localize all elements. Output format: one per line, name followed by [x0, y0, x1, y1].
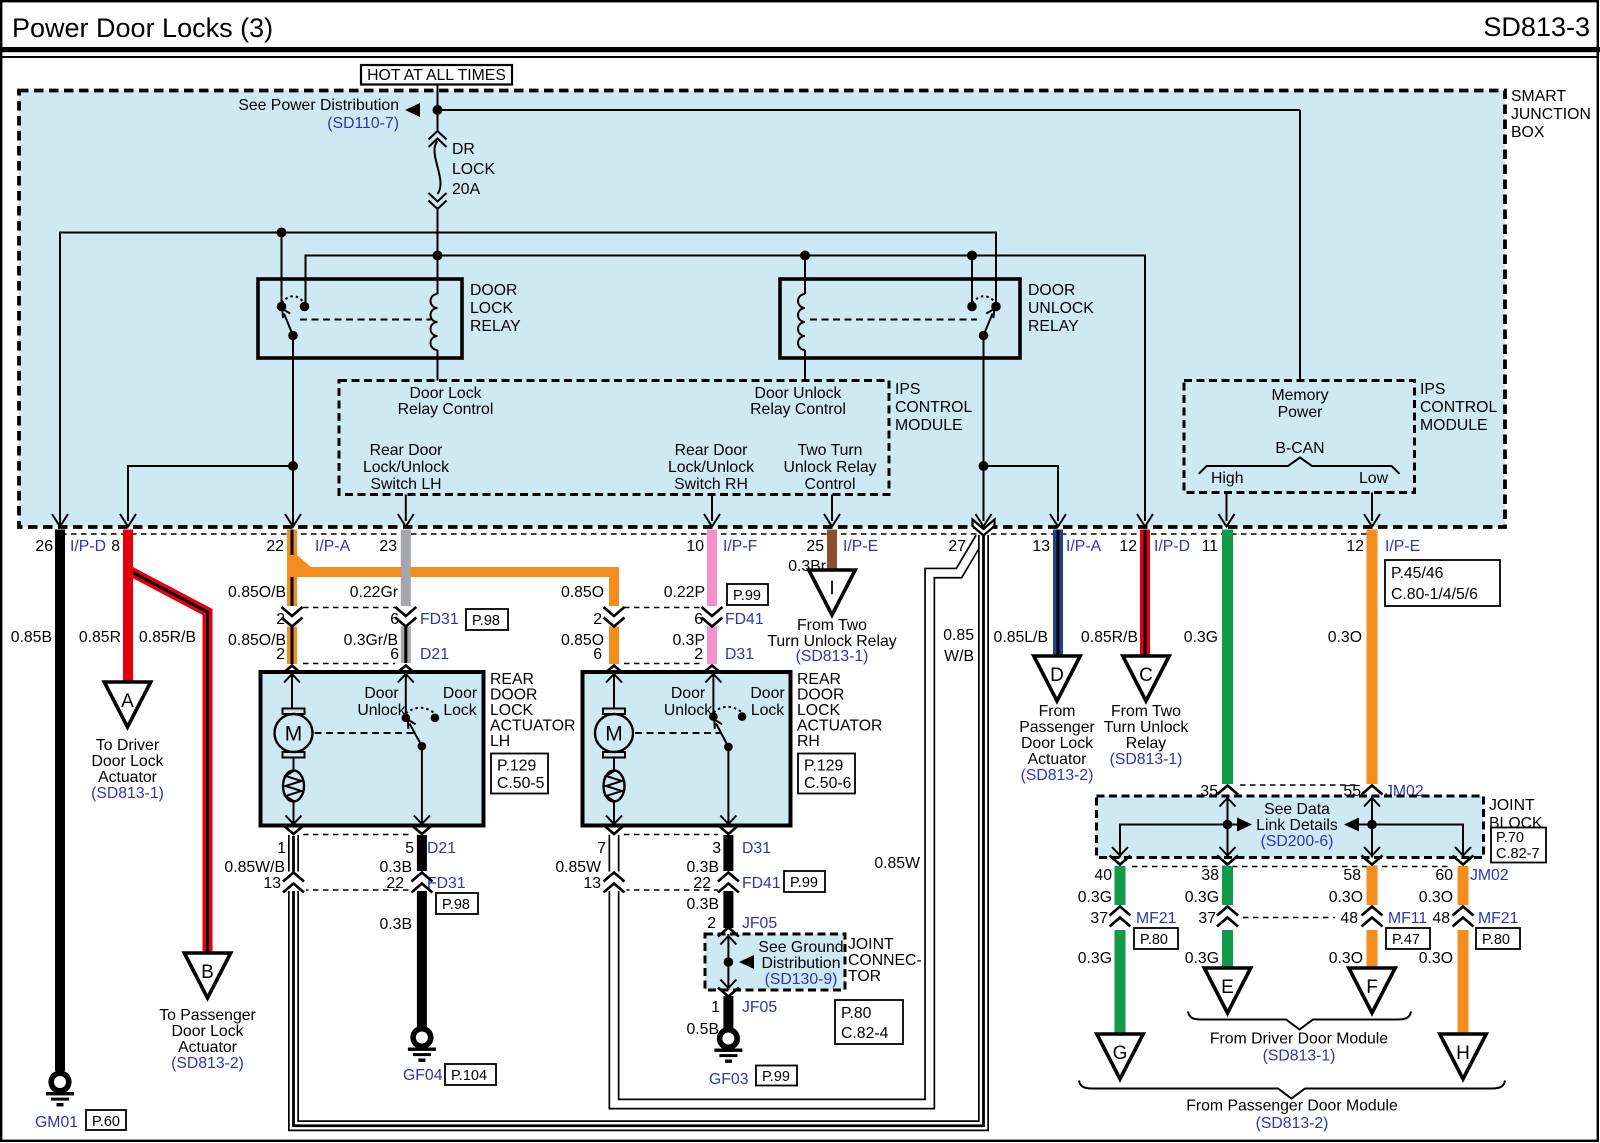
joint block internal wiring — [1120, 796, 1463, 858]
svg-text:0.85O/B: 0.85O/B — [228, 584, 286, 601]
wire 0.85L/B pin13 to triangle D — [1053, 530, 1063, 657]
ground GM01 — [46, 1073, 74, 1106]
svg-text:To Driver: To Driver — [96, 737, 159, 754]
wire from HOT box down to fuse — [437, 85, 439, 132]
svg-text:0.85W: 0.85W — [555, 859, 601, 876]
svg-text:12: 12 — [1346, 538, 1364, 555]
LH switch contacts — [402, 714, 411, 723]
svg-text:2: 2 — [593, 611, 602, 628]
svg-text:P.99: P.99 — [733, 588, 761, 604]
svg-text:Door: Door — [364, 685, 398, 702]
svg-text:20A: 20A — [452, 181, 481, 198]
relay2 dashed link — [810, 319, 977, 321]
svg-text:Unlock Relay: Unlock Relay — [783, 459, 876, 476]
svg-text:DOOR: DOOR — [1028, 282, 1075, 299]
svg-text:BOX: BOX — [1511, 124, 1545, 141]
svg-text:D: D — [1050, 665, 1064, 686]
LH motor — [283, 709, 305, 715]
svg-text:5: 5 — [405, 840, 414, 857]
relay2 contact right dot — [991, 302, 1001, 312]
svg-text:TOR: TOR — [848, 968, 881, 985]
svg-text:Low: Low — [1359, 470, 1389, 487]
relay2 coil — [798, 256, 805, 381]
actuator LH box — [261, 672, 484, 826]
triangle C — [1123, 656, 1169, 701]
svg-text:Lock: Lock — [751, 702, 784, 719]
svg-text:I/P-E: I/P-E — [1385, 538, 1420, 555]
node pin13 branch — [979, 461, 989, 471]
svg-text:MF21: MF21 — [1136, 910, 1177, 927]
svg-text:From Passenger Door Module: From Passenger Door Module — [1186, 1098, 1398, 1115]
relay1 dotted arc — [282, 296, 305, 303]
wire 0.85W RH motor to 27 jog (inner loop) — [614, 537, 981, 1105]
green wire 38 to triangle E — [1222, 866, 1233, 968]
svg-text:1: 1 — [711, 999, 720, 1016]
svg-text:10: 10 — [686, 538, 704, 555]
pin exit arrows — [52, 514, 68, 527]
svg-text:Door Unlock: Door Unlock — [755, 385, 842, 402]
svg-text:13: 13 — [263, 875, 281, 892]
svg-text:1: 1 — [277, 840, 286, 857]
thin dashed rows below boxes — [303, 835, 718, 891]
svg-text:Link Details: Link Details — [1256, 817, 1338, 834]
relay2 contact left dot — [967, 302, 977, 312]
svg-text:0.3B: 0.3B — [687, 896, 720, 913]
svg-text:2: 2 — [707, 915, 716, 932]
triangle E — [1204, 968, 1250, 1013]
svg-text:22: 22 — [386, 875, 404, 892]
wire fuse to bus2 — [437, 207, 439, 256]
svg-text:Door Lock: Door Lock — [410, 385, 482, 402]
svg-text:6: 6 — [593, 646, 602, 663]
svg-text:0.3O: 0.3O — [1328, 629, 1362, 646]
svg-text:DOOR: DOOR — [470, 282, 517, 299]
LH entry arrows — [284, 674, 300, 683]
svg-text:Control: Control — [805, 476, 856, 493]
svg-text:C.82-7: C.82-7 — [1496, 846, 1540, 862]
svg-text:Memory: Memory — [1271, 387, 1328, 404]
svg-text:C: C — [1139, 665, 1153, 686]
svg-text:Relay Control: Relay Control — [398, 401, 494, 418]
svg-text:From Two: From Two — [797, 617, 867, 634]
svg-text:P.129: P.129 — [804, 758, 843, 775]
LH switch arm — [410, 724, 422, 747]
svg-text:(SD813-2): (SD813-2) — [1021, 767, 1094, 784]
triangle G — [1097, 1034, 1143, 1079]
svg-text:REAR: REAR — [490, 671, 534, 688]
svg-text:13: 13 — [1032, 538, 1050, 555]
svg-text:0.5B: 0.5B — [687, 1021, 720, 1038]
svg-text:LOCK: LOCK — [490, 702, 533, 719]
svg-text:40: 40 — [1094, 867, 1112, 884]
svg-text:P.129: P.129 — [497, 758, 536, 775]
svg-text:Lock/Unlock: Lock/Unlock — [363, 459, 449, 476]
node at power feed — [433, 105, 443, 115]
svg-text:CONNEC-: CONNEC- — [848, 952, 922, 969]
svg-text:(SD813-2): (SD813-2) — [171, 1055, 244, 1072]
green chevron into joint block — [1217, 786, 1238, 795]
svg-text:P.80: P.80 — [841, 1005, 872, 1022]
svg-text:C.50-5: C.50-5 — [497, 775, 545, 792]
wire 0.85B pin26 — [55, 530, 65, 1072]
svg-text:0.22Gr: 0.22Gr — [350, 584, 398, 601]
svg-text:I: I — [829, 578, 834, 599]
thin dashed rows upper connectors — [303, 608, 701, 664]
svg-text:P.80: P.80 — [1140, 932, 1168, 948]
svg-text:I/P-A: I/P-A — [315, 538, 351, 555]
wire 0.85R/B pin12 to triangle C — [1140, 530, 1150, 657]
svg-text:A: A — [121, 691, 134, 712]
RH switch input wire — [712, 674, 714, 714]
chevron gaps on white wires — [281, 872, 306, 892]
svg-text:RELAY: RELAY — [1028, 318, 1079, 335]
svg-text:(SD813-1): (SD813-1) — [1110, 751, 1183, 768]
svg-text:(SD813-1): (SD813-1) — [91, 785, 164, 802]
wire 0.85R pin8 to triangle A — [123, 530, 133, 683]
svg-text:E: E — [1221, 977, 1234, 998]
relay1 dashed link — [300, 319, 431, 321]
relay2 switch output wire — [983, 336, 985, 522]
relay2 pivot dot — [979, 331, 989, 341]
node relay2 contact feed — [967, 251, 977, 261]
svg-text:25: 25 — [806, 538, 824, 555]
svg-text:6: 6 — [390, 646, 399, 663]
wire 0.3B RH switch to joint connector — [723, 835, 733, 928]
svg-text:I/P-A: I/P-A — [1066, 538, 1102, 555]
node bus1 left relay feed — [277, 228, 287, 238]
svg-text:22: 22 — [693, 875, 711, 892]
actuator RH box — [583, 672, 791, 826]
wire bus2 to relay2 contact — [971, 256, 973, 304]
svg-text:P.99: P.99 — [762, 1069, 790, 1085]
svg-text:0.3B: 0.3B — [687, 859, 720, 876]
wire 0.85W/B LH motor to pin 27 (outer loop) — [294, 534, 984, 1126]
white chevron at box exits — [283, 825, 304, 834]
triangle D — [1034, 656, 1080, 701]
svg-text:DR: DR — [452, 141, 475, 158]
svg-text:(SD813-1): (SD813-1) — [1263, 1048, 1336, 1065]
svg-text:Lock: Lock — [443, 702, 476, 719]
svg-text:LOCK: LOCK — [452, 161, 495, 178]
title separator thick line — [0, 47, 1600, 52]
wire memory power vertical — [1299, 110, 1301, 381]
relay2 switch arm with arrowhead — [984, 314, 993, 336]
svg-text:FD31: FD31 — [420, 611, 459, 628]
smart junction box dashed region — [19, 91, 1505, 528]
svg-text:Actuator: Actuator — [178, 1039, 237, 1056]
svg-text:P.98: P.98 — [472, 613, 500, 629]
svg-text:Door Lock: Door Lock — [92, 753, 164, 770]
RH motor branch wire — [613, 674, 615, 824]
svg-text:RELAY: RELAY — [470, 318, 521, 335]
svg-text:I/P-F: I/P-F — [723, 538, 758, 555]
svg-text:0.85W/B: 0.85W/B — [224, 859, 285, 876]
wire bus1 to relay1 contact A — [281, 233, 283, 304]
svg-text:JOINT: JOINT — [848, 936, 894, 953]
svg-text:2: 2 — [694, 646, 703, 663]
wire IPS2 to pin 11 — [1226, 493, 1228, 522]
svg-text:D31: D31 — [725, 646, 754, 663]
svg-text:D31: D31 — [742, 840, 771, 857]
svg-text:0.85R/B: 0.85R/B — [1081, 629, 1138, 646]
svg-text:UNLOCK: UNLOCK — [1028, 300, 1094, 317]
svg-text:C.82-4: C.82-4 — [841, 1025, 889, 1042]
orange wire 58 to triangle F — [1367, 866, 1378, 968]
svg-text:(SD813-1): (SD813-1) — [796, 648, 869, 665]
P.45/46 C.80 reference box — [1385, 560, 1500, 606]
svg-text:REAR: REAR — [797, 671, 841, 688]
svg-text:Two Turn: Two Turn — [798, 442, 863, 459]
wire 0.3B LH switch to GF04 — [417, 835, 427, 1027]
wire IPS1 to pin 23 — [405, 495, 407, 522]
svg-text:I/P-D: I/P-D — [70, 538, 106, 555]
svg-text:P.60: P.60 — [92, 1114, 120, 1130]
ground GF04 — [408, 1029, 436, 1062]
svg-text:Distribution: Distribution — [761, 955, 840, 972]
LH motor branch wire — [292, 674, 294, 824]
svg-text:W/B: W/B — [944, 648, 974, 665]
svg-text:0.3G: 0.3G — [1185, 950, 1219, 967]
brace passenger door module — [1079, 1081, 1505, 1099]
wire 0.3G pin11 — [1222, 530, 1233, 785]
svg-text:ACTUATOR: ACTUATOR — [490, 718, 575, 735]
bus wire B+ upper (y=232.5) — [60, 233, 996, 528]
RH switch contacts — [709, 712, 718, 721]
svg-text:(SD130-9): (SD130-9) — [765, 971, 838, 988]
svg-text:FD41: FD41 — [742, 875, 781, 892]
svg-text:P.104: P.104 — [451, 1068, 487, 1084]
bus wire B+ lower (y=255.5) — [306, 256, 1146, 522]
svg-text:MF11: MF11 — [1388, 910, 1427, 927]
svg-text:GF04: GF04 — [403, 1067, 443, 1084]
svg-text:Unlock: Unlock — [357, 702, 405, 719]
svg-text:D21: D21 — [427, 840, 456, 857]
svg-text:8: 8 — [111, 538, 120, 555]
svg-text:LOCK: LOCK — [797, 702, 840, 719]
svg-text:JM02: JM02 — [1470, 867, 1509, 884]
svg-text:SMART: SMART — [1511, 88, 1566, 105]
svg-text:0.3O: 0.3O — [1419, 950, 1453, 967]
wire IPS1 to pin 25 — [831, 495, 833, 522]
svg-text:Rear Door: Rear Door — [370, 442, 443, 459]
svg-text:23: 23 — [379, 538, 397, 555]
svg-text:37: 37 — [1198, 910, 1216, 927]
wire power feed horizontal to memory power — [438, 109, 1301, 111]
relay1 coil — [431, 256, 438, 381]
svg-text:0.85R/B: 0.85R/B — [139, 629, 196, 646]
svg-text:(SD200-6): (SD200-6) — [1261, 833, 1334, 850]
joint block dashed box — [1097, 796, 1484, 858]
svg-text:B-CAN: B-CAN — [1275, 440, 1324, 457]
svg-text:27: 27 — [948, 538, 966, 555]
LH switch input wire — [405, 674, 407, 714]
svg-text:To Passenger: To Passenger — [159, 1007, 256, 1024]
svg-text:Relay Control: Relay Control — [750, 401, 846, 418]
RH entry arrows — [606, 674, 622, 683]
svg-text:0.85: 0.85 — [943, 627, 974, 644]
svg-text:D21: D21 — [420, 646, 449, 663]
LH switch output wire — [421, 746, 423, 824]
svg-text:0.3B: 0.3B — [380, 916, 413, 933]
svg-text:0.3O: 0.3O — [1329, 889, 1363, 906]
svg-text:0.3O: 0.3O — [1329, 950, 1363, 967]
wire IPS2 to pin 12 IPE — [1371, 493, 1373, 522]
joint connector internal wire — [727, 934, 729, 990]
svg-text:Lock/Unlock: Lock/Unlock — [668, 459, 754, 476]
svg-text:Relay: Relay — [1126, 735, 1166, 752]
RH dashed link motor-switch — [635, 732, 722, 734]
svg-text:48: 48 — [1432, 910, 1450, 927]
svg-text:0.3G: 0.3G — [1185, 889, 1219, 906]
svg-text:0.3G: 0.3G — [1184, 629, 1218, 646]
svg-text:LH: LH — [490, 733, 510, 750]
chevrons orange pin22 — [282, 607, 303, 627]
thin dashed connector row — [61, 533, 1372, 535]
svg-text:F: F — [1366, 977, 1378, 998]
relay2 dotted arc — [972, 296, 996, 303]
svg-text:GM01: GM01 — [35, 1114, 78, 1131]
svg-text:HOT AT ALL TIMES: HOT AT ALL TIMES — [367, 67, 506, 84]
svg-text:Switch RH: Switch RH — [674, 476, 748, 493]
svg-text:0.22P: 0.22P — [664, 584, 705, 601]
B-CAN bracket — [1199, 458, 1400, 474]
svg-text:CONTROL: CONTROL — [1420, 399, 1497, 416]
svg-text:B: B — [201, 962, 214, 983]
relay1 switch output wire — [292, 336, 294, 528]
svg-text:DOOR: DOOR — [490, 687, 537, 704]
svg-text:See Data: See Data — [1264, 801, 1330, 818]
door unlock relay box — [780, 279, 1020, 358]
wire 0.5B to GF03 — [723, 996, 733, 1028]
relay1 contact A dot — [277, 302, 287, 312]
svg-text:Turn Unlock: Turn Unlock — [1104, 719, 1189, 736]
RH thermistor — [604, 771, 625, 802]
fuse DR LOCK 20A — [429, 131, 447, 209]
svg-text:P.47: P.47 — [1392, 932, 1420, 948]
svg-text:3: 3 — [712, 840, 721, 857]
triangle H — [1440, 1034, 1486, 1079]
svg-text:2: 2 — [276, 646, 285, 663]
wire 0.85R/B to triangle B — [128, 570, 208, 953]
svg-text:12: 12 — [1119, 538, 1137, 555]
relay1 contact B dot — [300, 302, 310, 312]
svg-text:11: 11 — [1202, 538, 1219, 555]
svg-text:26: 26 — [35, 538, 53, 555]
svg-text:From Driver Door Module: From Driver Door Module — [1210, 1031, 1388, 1048]
svg-text:See Ground: See Ground — [758, 939, 843, 956]
svg-text:Door Lock: Door Lock — [1021, 735, 1093, 752]
svg-text:0.3G: 0.3G — [1078, 889, 1112, 906]
svg-text:13: 13 — [583, 875, 601, 892]
svg-text:Power Door Locks (3): Power Door Locks (3) — [12, 13, 273, 43]
svg-text:C.80-1/4/5/6: C.80-1/4/5/6 — [1391, 586, 1478, 603]
svg-text:Actuator: Actuator — [1028, 751, 1087, 768]
svg-text:SD813-3: SD813-3 — [1483, 12, 1590, 42]
svg-text:60: 60 — [1435, 867, 1453, 884]
wire 0.3Br pin25 — [827, 530, 837, 571]
svg-text:See Power Distribution: See Power Distribution — [238, 97, 399, 114]
svg-text:GF03: GF03 — [709, 1071, 749, 1088]
svg-text:(SD110-7): (SD110-7) — [327, 115, 399, 132]
svg-text:IPS: IPS — [1420, 381, 1445, 398]
node pin8 branch — [288, 461, 298, 471]
svg-text:Switch LH: Switch LH — [370, 476, 441, 493]
LH exit arrows — [286, 816, 302, 825]
svg-text:Door: Door — [750, 685, 784, 702]
svg-text:P.80: P.80 — [1482, 932, 1510, 948]
MF chevron row — [1110, 907, 1131, 927]
svg-text:JF05: JF05 — [742, 999, 777, 1016]
svg-text:22: 22 — [266, 538, 284, 555]
svg-text:JF05: JF05 — [742, 915, 777, 932]
orange wire 60 to triangle H — [1458, 866, 1469, 1034]
svg-text:RH: RH — [797, 733, 820, 750]
LH thermistor — [283, 771, 304, 802]
node fuse feed on bus2 — [433, 251, 443, 261]
svg-text:MODULE: MODULE — [895, 417, 963, 434]
svg-text:7: 7 — [597, 840, 606, 857]
svg-text:0.3O: 0.3O — [1419, 889, 1453, 906]
HOT AT ALL TIMES box — [361, 65, 512, 85]
svg-text:JOINT: JOINT — [1489, 797, 1535, 814]
svg-text:Door: Door — [671, 685, 705, 702]
svg-text:MODULE: MODULE — [1420, 417, 1488, 434]
wire 0.85O branch horizontal to RH motor — [292, 572, 614, 606]
svg-text:FD31: FD31 — [427, 875, 466, 892]
wire 0.3O pin12 IPE — [1367, 530, 1378, 785]
svg-text:M: M — [285, 723, 303, 746]
wire 0.85O/B pin22 vertical — [287, 530, 297, 665]
svg-text:JUNCTION: JUNCTION — [1511, 106, 1591, 123]
svg-text:H: H — [1456, 1043, 1470, 1064]
door lock relay box — [258, 279, 462, 358]
wire branch to pin 8 — [128, 466, 293, 521]
relay1 pivot dot — [288, 331, 298, 341]
brace driver door module — [1188, 1012, 1411, 1030]
triangle A — [104, 682, 150, 727]
svg-text:0.85R: 0.85R — [79, 629, 121, 646]
chevrons below joint block — [1110, 856, 1131, 865]
svg-text:From: From — [1039, 703, 1076, 720]
green wire 40 to triangle G — [1115, 866, 1126, 1034]
svg-text:I/P-D: I/P-D — [1154, 538, 1190, 555]
svg-text:0.85W: 0.85W — [874, 855, 920, 872]
wire IPS1 to pin 10 — [711, 495, 713, 522]
svg-text:IPS: IPS — [895, 381, 920, 398]
svg-text:0.85L/B: 0.85L/B — [994, 629, 1048, 646]
triangle I — [809, 570, 855, 615]
LH dashed link motor-switch — [315, 732, 416, 734]
svg-text:High: High — [1211, 470, 1244, 487]
svg-text:From Two: From Two — [1111, 703, 1181, 720]
white chevron pin 27 — [973, 520, 995, 536]
svg-text:C.50-6: C.50-6 — [804, 775, 852, 792]
triangle F — [1349, 968, 1395, 1013]
ground GF03 — [714, 1030, 742, 1063]
svg-text:P.45/46: P.45/46 — [1391, 565, 1444, 582]
wire branch to pin 13 — [984, 466, 1059, 521]
svg-text:P.98: P.98 — [442, 897, 470, 913]
svg-text:P.99: P.99 — [790, 875, 818, 891]
svg-text:DOOR: DOOR — [797, 687, 844, 704]
joint connector dashed box — [705, 934, 845, 990]
RH switch output wire — [727, 747, 729, 824]
wire 0.22Gr pin23 — [401, 530, 411, 607]
drawing frame top line — [3, 56, 1598, 58]
svg-text:0.85O: 0.85O — [561, 584, 604, 601]
svg-text:Power: Power — [1278, 404, 1323, 421]
svg-text:G: G — [1113, 1043, 1128, 1064]
